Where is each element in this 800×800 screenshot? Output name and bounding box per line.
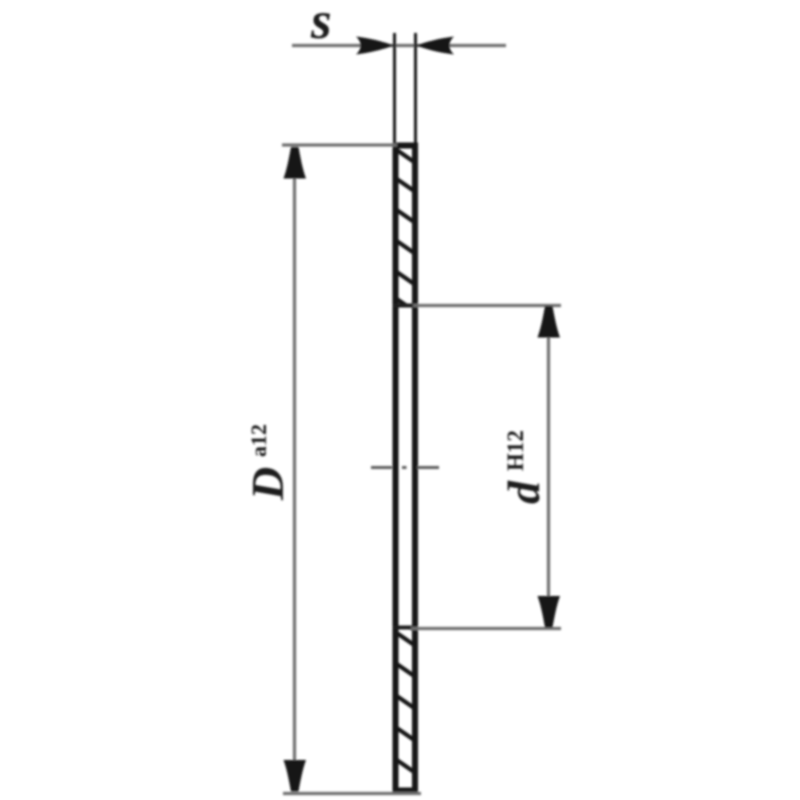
- svg-text:a12: a12: [246, 424, 271, 457]
- washer left edge: [393, 143, 399, 792]
- arrowhead s right: [416, 37, 454, 55]
- arrowhead d down: [538, 596, 561, 628]
- hole bottom edge: [393, 626, 418, 630]
- extension line left of thickness: [393, 33, 396, 145]
- washer right edge: [412, 143, 418, 792]
- dimension line d: [547, 309, 550, 624]
- extension line D top: [282, 143, 397, 146]
- label D a12: [242, 424, 293, 501]
- hole top edge: [393, 304, 418, 308]
- label d H12: [498, 430, 549, 504]
- center line mark: [371, 466, 439, 469]
- extension line d bottom: [411, 627, 561, 630]
- dimension line D: [293, 150, 296, 788]
- washer bottom edge: [393, 788, 418, 794]
- svg-text:d: d: [498, 480, 549, 504]
- arrowhead s left: [356, 37, 394, 55]
- arrowhead D down: [284, 760, 307, 792]
- extension line d top: [413, 304, 561, 307]
- hatching lower section: [394, 616, 417, 800]
- svg-text:H12: H12: [503, 430, 528, 471]
- dimension line s: [292, 44, 506, 47]
- svg-text:s: s: [310, 0, 332, 50]
- extension line right of thickness: [414, 33, 417, 145]
- extension line D bottom: [283, 792, 421, 795]
- svg-text:D: D: [242, 467, 293, 501]
- washer top edge: [393, 143, 418, 149]
- arrowhead D up: [284, 147, 307, 179]
- hatching upper section: [394, 148, 417, 313]
- arrowhead d up: [538, 306, 561, 338]
